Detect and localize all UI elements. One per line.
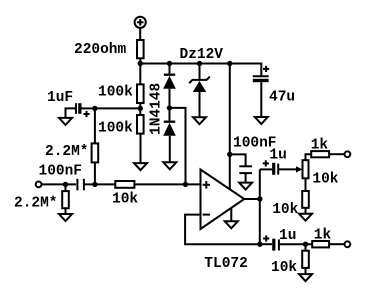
node rail-D1 [167, 61, 172, 66]
node V+ 100nF tap [227, 152, 232, 157]
svg-text:10k: 10k [112, 192, 138, 208]
ground (47u) [255, 117, 268, 124]
wire output vertical [259, 169, 261, 244]
node diode midpoint [167, 105, 172, 110]
wire between 100k resistors [139, 103, 141, 115]
svg-text:1uF: 1uF [47, 90, 73, 106]
node input / 2.2M lower [63, 182, 68, 187]
resistor 220ohm [137, 40, 144, 58]
resistor 100k lower [137, 115, 144, 134]
svg-text:1N4148: 1N4148 [149, 83, 165, 135]
node rail-R220 [138, 61, 143, 66]
wire 100k lower to ground [140, 134, 142, 164]
input terminal [36, 182, 42, 188]
svg-text:1k: 1k [311, 138, 329, 154]
node bias (1uF / 2.2M / divider) [92, 106, 97, 111]
svg-text:10k: 10k [271, 260, 297, 276]
diode D2 1N4148 [163, 122, 176, 136]
wire rail to D1 [169, 64, 171, 74]
capacitor 100nF decoupling [239, 166, 252, 173]
resistor 100k upper [137, 84, 144, 103]
svg-text:Dz12V: Dz12V [180, 47, 224, 63]
svg-text:47u: 47u [269, 90, 295, 106]
wire 1u to pot wiper [278, 168, 297, 170]
resistor 10k below pot [302, 191, 309, 208]
svg-text:10k: 10k [272, 202, 298, 218]
ground (2.2M lower) [59, 214, 72, 221]
op-amp U1 TL072 [201, 170, 245, 230]
wire opamp V+ supply [229, 64, 231, 190]
wire 1u to lower out node [279, 243, 312, 245]
ground (1uF) [59, 118, 72, 125]
capacitor 1u upper [263, 160, 279, 175]
wire lower node to 10k [305, 244, 307, 251]
wire 47u to ground [260, 82, 262, 117]
wire rail to 100k divider [139, 64, 141, 85]
wire 100nF to ground [245, 173, 247, 183]
pot wiper arrow [296, 166, 302, 172]
wire 10k to ground [305, 208, 307, 214]
ground (diode chain) [163, 162, 176, 169]
wire 1uF to ground [66, 108, 77, 118]
wire input terminal to 2.2M node [42, 183, 77, 185]
node 100nF / 2.2M upper [92, 182, 97, 187]
zener diode Dz12V [189, 77, 210, 92]
wire 1k to upper output terminal [329, 153, 344, 155]
node 100k midpoint [138, 106, 143, 111]
resistor 1k lower [312, 241, 329, 247]
svg-text:1u: 1u [279, 228, 296, 244]
svg-text:100k: 100k [98, 85, 133, 101]
capacitor 100nF input [77, 179, 84, 191]
wire diode midpoint to opamp + input [170, 108, 186, 184]
wire V+ tap to 100nF [230, 154, 246, 166]
wire zener to ground [199, 92, 201, 117]
output terminal upper [345, 151, 351, 157]
resistor 1k upper [311, 151, 329, 157]
wire D1 to D2 [169, 89, 171, 121]
wire D2 to ground [169, 136, 171, 163]
wire lower out to 1u [260, 243, 272, 245]
wire bias node to R 2.2M upper [94, 108, 96, 143]
wire 2.2M upper to input node [94, 162, 96, 184]
svg-text:TL072: TL072 [204, 256, 248, 272]
svg-text:1k: 1k [314, 228, 332, 244]
svg-text:2.2M*: 2.2M* [14, 195, 58, 211]
node lower output [303, 242, 308, 247]
wire 220ohm to rail [139, 58, 141, 63]
wire opamp V- to ground [230, 208, 232, 221]
wire pot top to 1k [306, 154, 312, 160]
svg-text:100nF: 100nF [39, 163, 83, 179]
node feedback / lower out [257, 242, 262, 247]
resistor 2.2M* upper [92, 143, 99, 162]
ground (below pot) [299, 214, 312, 221]
ground (zener) [193, 117, 206, 124]
resistor 10k input [115, 181, 134, 188]
wire 10k to opamp + input [134, 183, 200, 185]
svg-text:2.2M*: 2.2M* [45, 144, 89, 160]
wire power to R 220ohm [139, 28, 141, 40]
diode D1 1N4148 [163, 75, 176, 89]
resistor 10k lower [302, 251, 309, 268]
svg-text:220ohm: 220ohm [74, 42, 127, 58]
wire bias node to 100k midpoint [95, 107, 140, 109]
wire 100nF to 10k [84, 183, 115, 185]
wire opamp output [244, 198, 259, 200]
wire 10k to ground [305, 268, 307, 274]
wire 1uF to bias node [82, 107, 95, 109]
resistor 2.2M* lower [62, 184, 69, 214]
node + input junction [183, 182, 188, 187]
node output [257, 196, 262, 201]
ground (100k divider) [134, 163, 147, 170]
capacitor 1u lower [263, 235, 279, 250]
wire pot bottom to 10k [305, 178, 307, 191]
capacitor 1uF [76, 103, 90, 117]
svg-text:1u: 1u [269, 148, 286, 164]
node rail-zener [197, 61, 202, 66]
output terminal lower [345, 241, 351, 247]
ground (lower 10k) [299, 274, 312, 281]
wire 1k to lower output terminal [329, 243, 344, 245]
node rail-opamp-V+ [227, 61, 232, 66]
power supply + terminal [135, 17, 146, 28]
wire feedback output to - input [185, 215, 260, 245]
wire output to 1u upper [260, 168, 272, 170]
capacitor 47u [253, 66, 269, 82]
wire top supply rail [140, 64, 261, 76]
wire rail to zener [199, 64, 201, 80]
svg-text:10k: 10k [312, 171, 338, 187]
svg-text:100k: 100k [98, 121, 133, 137]
ground (100nF decoupling) [239, 183, 252, 190]
potentiometer 10k [303, 160, 309, 178]
ground (opamp V-) [225, 221, 238, 228]
